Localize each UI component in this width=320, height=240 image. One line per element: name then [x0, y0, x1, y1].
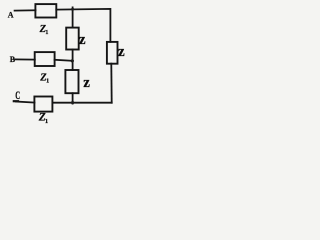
impedance box Z1 (branch A): [35, 4, 56, 17]
wire C terminal tick: [14, 100, 18, 102]
impedance box Z (middle lower): [65, 70, 78, 93]
wire middle column mid: [72, 50, 74, 71]
label Z1 (branch B): [39, 72, 49, 84]
wire bottom run: [53, 102, 112, 104]
node C: [15, 89, 20, 103]
wire middle column top: [72, 7, 74, 27]
label z (middle upper): [79, 32, 86, 48]
impedance box Z2 (right column): [107, 42, 118, 64]
svg-text:z: z: [118, 44, 125, 60]
junction dot (top node): [71, 8, 74, 11]
impedance box Z1 (branch C): [34, 97, 52, 112]
svg-text:1: 1: [46, 78, 49, 84]
wire C lead: [16, 102, 35, 103]
node A: [8, 11, 14, 20]
impedance box Z1 (branch B): [35, 52, 55, 66]
svg-text:A: A: [8, 11, 14, 20]
svg-text:1: 1: [45, 30, 48, 36]
impedance box z (middle upper): [66, 28, 79, 50]
junction dot (bottom node): [71, 101, 74, 104]
svg-text:z: z: [79, 32, 86, 48]
junction dot (node B tie-in): [71, 59, 74, 62]
wire A lead: [15, 9, 36, 11]
svg-text:z: z: [83, 75, 90, 91]
wire B box to middle column: [55, 60, 73, 61]
wire B lead: [15, 58, 35, 60]
label Z1 (branch A): [39, 24, 49, 36]
wire top run to right column: [56, 9, 110, 42]
svg-text:1: 1: [45, 118, 48, 125]
node B: [10, 55, 16, 64]
label z (right column): [118, 44, 125, 60]
label Z1 (branch C): [38, 111, 48, 125]
wire middle column bottom: [72, 93, 74, 103]
wire right column lower: [110, 64, 112, 103]
label Z (middle lower): [83, 75, 90, 91]
